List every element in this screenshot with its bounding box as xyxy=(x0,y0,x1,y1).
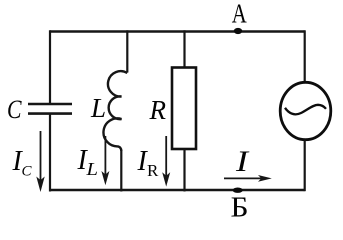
svg-text:C: C xyxy=(22,164,33,180)
wire: source branch lower stub xyxy=(304,140,306,192)
wire: source branch upper stub xyxy=(304,30,306,83)
wire: inductor branch upper stub xyxy=(126,30,128,72)
wire: top bus from left corner to right corner xyxy=(50,30,305,32)
current arrow I_C xyxy=(36,131,44,192)
current arrow I (main, horizontal) xyxy=(224,175,272,182)
AC source U1 circle xyxy=(280,82,331,139)
node A dot xyxy=(234,28,242,34)
current arrow I_L xyxy=(101,136,109,185)
current arrow I_R xyxy=(162,136,170,187)
capacitor C plates xyxy=(28,103,72,106)
wire: resistor branch upper stub xyxy=(183,30,185,68)
wire: inductor branch lower stub xyxy=(120,150,122,192)
svg-text:А: А xyxy=(232,0,247,29)
svg-text:L: L xyxy=(85,159,98,179)
wire: resistor branch lower stub xyxy=(183,149,185,192)
svg-text:C: C xyxy=(7,95,22,124)
wire: left branch upper segment (to capacitor) xyxy=(49,30,51,103)
AC source sine wave xyxy=(285,105,326,115)
wire: left branch lower segment (from capacitor) xyxy=(49,114,51,192)
resistor R body xyxy=(172,68,196,150)
svg-text:L: L xyxy=(90,93,106,123)
node B dot xyxy=(233,188,243,193)
wire: bottom bus xyxy=(50,189,305,191)
svg-text:R: R xyxy=(149,95,167,125)
svg-text:R: R xyxy=(147,161,159,180)
inductor L coil (3 bumps) xyxy=(103,71,127,151)
svg-text:Б: Б xyxy=(231,193,249,219)
